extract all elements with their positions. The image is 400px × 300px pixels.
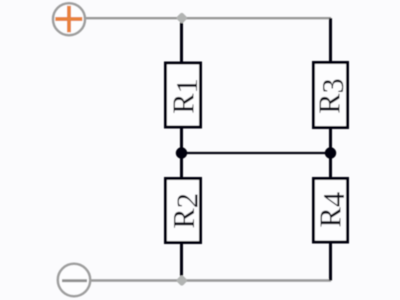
svg-text:R4: R4	[313, 192, 351, 228]
svg-text:R2: R2	[167, 193, 205, 229]
svg-text:R1: R1	[167, 78, 205, 114]
svg-text:R3: R3	[313, 78, 351, 114]
